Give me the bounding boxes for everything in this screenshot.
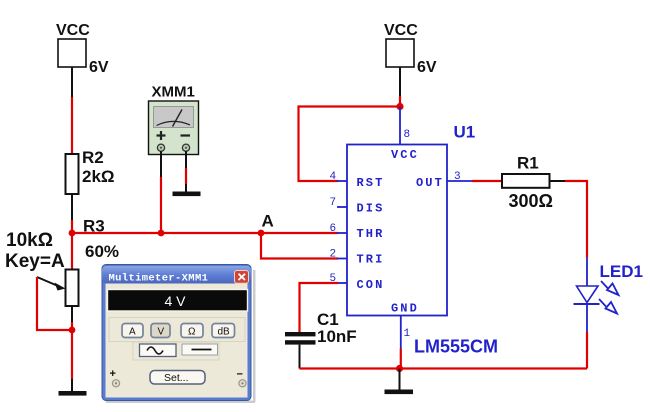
svg-text:6V: 6V bbox=[89, 59, 109, 76]
wire VCC1 to R2 bbox=[71, 67, 73, 154]
svg-text:LM555CM: LM555CM bbox=[414, 337, 498, 357]
ground (center) bbox=[385, 369, 414, 395]
LED1 emission arrow 1 bbox=[601, 281, 619, 295]
wire R1 to LED corner bbox=[550, 181, 588, 258]
wire pot bottom lead bbox=[71, 306, 73, 330]
dialog button dB bbox=[212, 324, 235, 338]
svg-text:THR: THR bbox=[357, 227, 385, 241]
svg-text:1: 1 bbox=[404, 328, 411, 340]
wire main node line to THR bbox=[72, 232, 338, 234]
resistor R1 bbox=[502, 174, 550, 188]
dialog button DC mode bbox=[182, 344, 218, 355]
junction at R2/R3 node bbox=[69, 230, 76, 237]
wire bottom rail bbox=[300, 367, 588, 369]
junction VCC2 node bbox=[396, 103, 403, 110]
svg-text:R3: R3 bbox=[83, 217, 105, 236]
junction XMM1 wire on node line bbox=[158, 230, 165, 237]
wire node to R3 pot bbox=[71, 233, 73, 270]
pin stub CON pin 5 bbox=[337, 282, 347, 284]
multimeter XMM1 icon bbox=[149, 101, 199, 155]
svg-text:Multimeter-XMM1: Multimeter-XMM1 bbox=[109, 273, 209, 285]
multimeter dialog window Multimeter-XMM1 bbox=[102, 265, 256, 404]
pin stub THR pin 6 bbox=[337, 232, 347, 234]
pin stub RST pin 4 bbox=[337, 180, 347, 182]
svg-text:+: + bbox=[110, 368, 116, 380]
svg-text:VCC: VCC bbox=[391, 148, 419, 162]
capacitor C1 bbox=[285, 332, 316, 345]
svg-text:6: 6 bbox=[330, 223, 337, 235]
dialog button A bbox=[122, 324, 143, 338]
svg-text:A: A bbox=[262, 212, 274, 231]
dialog buttons groove panel bbox=[109, 318, 245, 361]
wire CON to C1 bbox=[300, 283, 339, 332]
wire VCC node to RST bbox=[299, 107, 401, 182]
potentiometer R3 wiper arrow bbox=[37, 277, 66, 291]
svg-text:R2: R2 bbox=[82, 148, 104, 167]
wire C1 to bottom rail bbox=[299, 345, 301, 369]
resistor R2 bbox=[66, 154, 79, 194]
svg-text:TRI: TRI bbox=[357, 253, 385, 267]
svg-text:V: V bbox=[158, 327, 165, 338]
wire node A to TRI bbox=[261, 233, 338, 259]
wire pot wiper bypass bbox=[37, 277, 69, 330]
op-amp U1 body (555 timer) bbox=[347, 145, 447, 316]
svg-text:Ω: Ω bbox=[188, 327, 196, 338]
svg-text:10kΩ: 10kΩ bbox=[6, 230, 53, 251]
svg-text:R1: R1 bbox=[517, 154, 539, 173]
dialog button Ω bbox=[181, 324, 203, 338]
dialog display readout 4 V bbox=[108, 290, 248, 312]
svg-text:60%: 60% bbox=[85, 242, 119, 261]
svg-text:2: 2 bbox=[330, 249, 337, 261]
dialog close button bbox=[235, 271, 249, 284]
dialog button sine mode (selected) bbox=[140, 344, 177, 357]
LED1 emission arrow 2 bbox=[599, 299, 617, 314]
svg-text:RST: RST bbox=[357, 176, 385, 190]
wire LED to bottom rail bbox=[586, 332, 588, 369]
power symbol VCC (left) bbox=[56, 22, 90, 67]
svg-text:4: 4 bbox=[330, 171, 337, 183]
svg-text:4 V: 4 V bbox=[165, 293, 187, 309]
pin stub DIS pin 7 bbox=[337, 206, 347, 208]
svg-text:DIS: DIS bbox=[357, 202, 385, 216]
pin stub OUT pin 3 bbox=[447, 180, 472, 182]
dialog button Set... bbox=[150, 371, 205, 385]
junction bottom rail / GND bbox=[396, 365, 403, 372]
pin stub GND pin 1 bbox=[400, 316, 402, 349]
svg-text:LED1: LED1 bbox=[600, 262, 643, 281]
svg-text:7: 7 bbox=[330, 197, 337, 209]
svg-text:dB: dB bbox=[218, 327, 231, 338]
junction pot bottom bbox=[69, 327, 76, 334]
svg-text:2kΩ: 2kΩ bbox=[82, 167, 115, 186]
svg-text:Key=A: Key=A bbox=[5, 251, 65, 272]
ground (left) bbox=[59, 391, 87, 396]
svg-text:3: 3 bbox=[454, 171, 461, 183]
wire XMM1 minus terminal to ground bbox=[185, 151, 187, 191]
LED LED1 bbox=[574, 258, 600, 332]
svg-text:300Ω: 300Ω bbox=[509, 191, 553, 211]
junction node A bbox=[258, 230, 265, 237]
potentiometer R3 body bbox=[66, 270, 79, 307]
svg-text:CON: CON bbox=[357, 278, 385, 292]
wire R2 to node bbox=[71, 194, 73, 233]
wire OUT to R1 bbox=[472, 180, 502, 182]
svg-text:8: 8 bbox=[404, 129, 411, 141]
svg-text:A: A bbox=[129, 327, 136, 338]
svg-text:10nF: 10nF bbox=[317, 327, 357, 346]
svg-text:−: − bbox=[237, 369, 243, 381]
wire VCC2 down to junction bbox=[399, 67, 401, 107]
wire XMM1 plus terminal to node A line bbox=[160, 151, 162, 233]
pin stub TRI pin 2 bbox=[337, 258, 347, 260]
ground (XMM1) bbox=[173, 192, 201, 197]
power symbol VCC (top center) bbox=[384, 22, 418, 67]
svg-text:VCC: VCC bbox=[384, 22, 418, 39]
dialog plus terminal bbox=[110, 368, 120, 387]
wire GND pin lower segment bbox=[400, 349, 402, 369]
svg-text:GND: GND bbox=[391, 302, 419, 316]
dialog button V (selected) bbox=[151, 324, 170, 338]
pin stub VCC pin 8 bbox=[399, 107, 401, 145]
svg-text:6V: 6V bbox=[417, 59, 437, 76]
svg-text:XMM1: XMM1 bbox=[152, 84, 195, 101]
dialog minus terminal bbox=[237, 369, 247, 387]
svg-text:Set...: Set... bbox=[164, 372, 189, 384]
wire pot node to ground bbox=[71, 330, 73, 391]
svg-text:VCC: VCC bbox=[56, 22, 90, 39]
svg-text:U1: U1 bbox=[454, 123, 476, 142]
svg-text:OUT: OUT bbox=[416, 176, 444, 190]
